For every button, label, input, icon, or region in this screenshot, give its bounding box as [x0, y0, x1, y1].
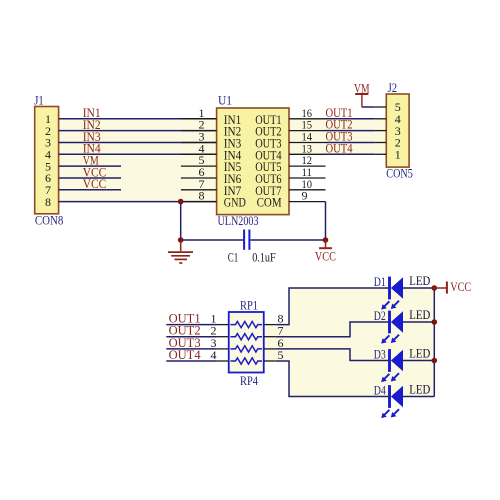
LED D1	[381, 277, 403, 310]
svg-text:1: 1	[395, 148, 401, 162]
U1 pin 2 stub	[181, 130, 217, 132]
svg-text:J1: J1	[34, 93, 44, 108]
svg-text:C1: C1	[228, 250, 239, 265]
wire RP1.5 to D4	[276, 361, 389, 397]
RP1 pin 2 stub	[217, 336, 229, 338]
wire VCC rail vertical	[433, 288, 435, 397]
LED D2	[381, 311, 403, 344]
wire IN4 (J1.4 to U1.4)	[59, 153, 217, 155]
svg-text:U1: U1	[218, 93, 232, 108]
svg-text:D3: D3	[374, 347, 386, 362]
junction above ground symbol	[178, 237, 184, 243]
svg-text:D2: D2	[374, 308, 386, 323]
RP1 pin 1 stub	[217, 324, 229, 326]
svg-text:VCC: VCC	[315, 248, 336, 263]
svg-text:5: 5	[278, 348, 284, 362]
svg-text:RP1: RP1	[240, 298, 258, 313]
RP1 pin 6 stub	[264, 348, 276, 350]
resistor network RP1 body	[229, 312, 264, 373]
wire OUT1 into RP1.1	[166, 324, 216, 326]
RP1 resistor element 1 zigzag	[230, 322, 262, 328]
svg-text:D1: D1	[374, 274, 386, 289]
wire IN2 (J1.2 to U1.2)	[59, 130, 217, 132]
svg-text:RP4: RP4	[240, 373, 258, 388]
wire-area fill between U1 and J2	[289, 119, 386, 155]
U1 pin 4 stub	[181, 153, 217, 155]
junction at VCC port	[323, 237, 329, 243]
RP1 pin 5 stub	[264, 360, 276, 362]
capacitor C1 plates	[244, 230, 249, 250]
RP1 resistor element 4 zigzag	[230, 358, 262, 364]
svg-text:8: 8	[199, 189, 205, 203]
svg-text:9: 9	[302, 189, 308, 203]
svg-text:COM: COM	[257, 195, 282, 210]
ground symbol	[168, 240, 193, 263]
U1 pin 16 stub	[289, 118, 326, 120]
svg-text:0.1uF: 0.1uF	[252, 250, 276, 265]
U1 pin 10 stub	[289, 189, 326, 191]
connector J2 body	[386, 94, 409, 167]
wire-area fill between J1 and U1	[59, 119, 217, 202]
svg-text:VM: VM	[354, 81, 370, 96]
U1 pin 9 stub	[289, 201, 326, 203]
svg-text:VCC: VCC	[450, 279, 471, 294]
svg-text:CON5: CON5	[386, 166, 413, 181]
power port VCC (bottom, bar)	[319, 240, 332, 248]
RP1 resistor element 3 zigzag	[230, 346, 262, 352]
U1 pin 6 stub	[181, 177, 217, 179]
wire IN3 (J1.3 to U1.3)	[59, 142, 217, 144]
wire OUT1 (U1.16 to J2.4)	[326, 118, 375, 120]
wire OUT3 (U1.14 to J2.2)	[326, 142, 375, 144]
svg-text:LED: LED	[409, 382, 430, 397]
U1 pin 14 stub	[289, 142, 326, 144]
svg-text:ULN2003: ULN2003	[218, 213, 259, 228]
wire GND net down from junction	[180, 202, 182, 240]
wire RP1.8 to D1	[276, 288, 389, 325]
U1 pin 3 stub	[181, 142, 217, 144]
wire D2 anode to VCC rail	[403, 321, 435, 323]
wire RP1.7 to D2	[276, 322, 389, 337]
LED D4	[381, 385, 403, 418]
wire VM stub from J1.5	[59, 165, 121, 167]
wire OUT3 into RP1.3	[166, 348, 216, 350]
IC U1 body	[217, 108, 289, 215]
wire D4 anode to VCC rail	[403, 396, 435, 398]
svg-text:OUT4: OUT4	[169, 347, 201, 362]
RP1 resistor element 2 zigzag	[230, 334, 262, 340]
power port VCC (right, bar)	[434, 282, 447, 294]
svg-text:8: 8	[45, 195, 51, 209]
connector J1 body	[35, 107, 59, 214]
junction VCC rail at D3	[432, 358, 438, 364]
svg-text:LED: LED	[409, 307, 430, 322]
wire OUT4 (U1.13 to J2.1)	[326, 153, 375, 155]
J2 pin 5 stub	[374, 106, 386, 108]
U1 pin 5 stub	[181, 165, 217, 167]
svg-text:D4: D4	[374, 383, 386, 398]
svg-text:4: 4	[211, 348, 217, 362]
svg-text:J2: J2	[388, 80, 398, 95]
junction VCC rail at D1	[432, 285, 438, 291]
svg-text:CON8: CON8	[35, 213, 64, 228]
U1 pin 7 stub	[181, 189, 217, 191]
wire GND (J1.8 to U1.8)	[59, 201, 217, 203]
J2 pin 4 stub	[374, 118, 386, 120]
junction on GND wire at U1 row 8	[178, 199, 184, 205]
svg-text:GND: GND	[224, 195, 246, 210]
power port VM (bar)	[355, 94, 368, 107]
wire VCC stub from J1.7	[59, 189, 121, 191]
svg-text:VCC: VCC	[83, 176, 107, 191]
U1 pin 8 stub	[181, 201, 217, 203]
wire junction to C1 left plate	[181, 239, 243, 241]
RP1 pin 8 stub	[264, 324, 276, 326]
wire D3 anode to VCC rail	[403, 360, 435, 362]
junction VCC rail at D2	[432, 319, 438, 325]
U1 pin 15 stub	[289, 130, 326, 132]
wire OUT2 into RP1.2	[166, 336, 216, 338]
wire C1 right plate to VCC junction	[250, 239, 325, 241]
J2 pin 1 stub	[374, 153, 386, 155]
U1 pin 12 stub	[289, 165, 326, 167]
wire OUT2 (U1.15 to J2.3)	[326, 130, 375, 132]
J2 pin 3 stub	[374, 130, 386, 132]
U1 pin 13 stub	[289, 153, 326, 155]
wire OUT4 into RP1.4	[166, 360, 216, 362]
wire D1 anode to VCC rail	[403, 287, 435, 289]
LED D3	[381, 349, 403, 382]
svg-text:OUT4: OUT4	[326, 140, 353, 155]
svg-text:LED: LED	[409, 346, 430, 361]
RP1 pin 4 stub	[217, 360, 229, 362]
RP1 pin 7 stub	[264, 336, 276, 338]
U1 pin 11 stub	[289, 177, 326, 179]
wire-area fill of LED network	[264, 288, 435, 397]
wire IN1 (J1.1 to U1.1)	[59, 118, 217, 120]
J2 pin 2 stub	[374, 142, 386, 144]
RP1 pin 3 stub	[217, 348, 229, 350]
wire VM to J2.5	[362, 106, 374, 108]
wire VCC stub from J1.6	[59, 177, 121, 179]
U1 pin 1 stub	[181, 118, 217, 120]
wire U1.9 COM down to VCC	[325, 202, 327, 240]
svg-text:LED: LED	[409, 273, 430, 288]
wire RP1.6 to D3	[276, 349, 389, 361]
